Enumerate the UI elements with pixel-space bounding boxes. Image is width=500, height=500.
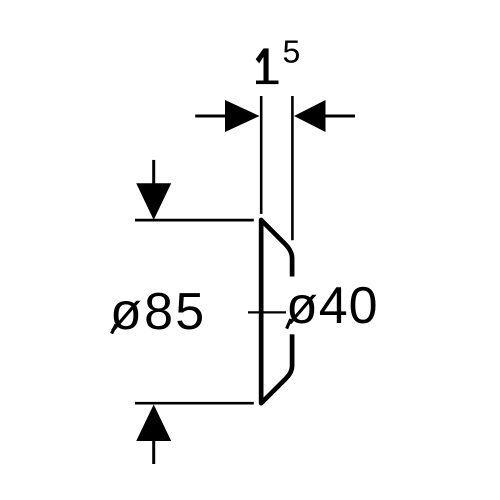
extension line left (1.5 dim)	[260, 96, 263, 214]
svg-text:ø40: ø40	[286, 277, 379, 335]
gasket profile outline	[261, 220, 292, 403]
extension line right (1.5 dim)	[291, 96, 294, 240]
arrow right-pointing (1.5 left)	[195, 100, 259, 132]
arrow up (ø85 bottom)	[136, 405, 171, 465]
arrow down (ø85 top)	[136, 160, 171, 220]
svg-text:ø85: ø85	[110, 283, 207, 341]
svg-text:5: 5	[282, 33, 300, 69]
arrow left-pointing (1.5 right)	[294, 100, 355, 132]
dimension line ø85 top	[135, 219, 254, 222]
ø40 slash lower extension	[287, 319, 291, 329]
white mask over right edge for ø40 label	[286, 277, 300, 335]
dimension line ø85 bottom	[135, 402, 254, 405]
label 1 (of 1.5)	[256, 48, 279, 84]
ø85 slash lower extension	[112, 325, 116, 334]
leader tick for ø40	[248, 311, 286, 313]
